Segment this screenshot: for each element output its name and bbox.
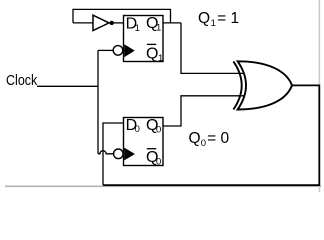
svg-text:Q: Q (189, 130, 201, 147)
svg-text:1: 1 (135, 23, 140, 34)
svg-text:0: 0 (201, 138, 206, 149)
svg-text:Q: Q (198, 10, 210, 27)
svg-text:0: 0 (156, 124, 161, 135)
svg-text:= 0: = 0 (207, 130, 229, 147)
svg-text:= 1: = 1 (217, 10, 239, 27)
svg-text:1: 1 (158, 53, 163, 64)
svg-text:0: 0 (135, 124, 140, 135)
svg-text:Clock: Clock (6, 72, 38, 89)
svg-text:0: 0 (156, 156, 161, 167)
svg-text:1: 1 (211, 18, 216, 29)
svg-text:1: 1 (156, 23, 161, 34)
svg-text:Q: Q (146, 45, 158, 62)
